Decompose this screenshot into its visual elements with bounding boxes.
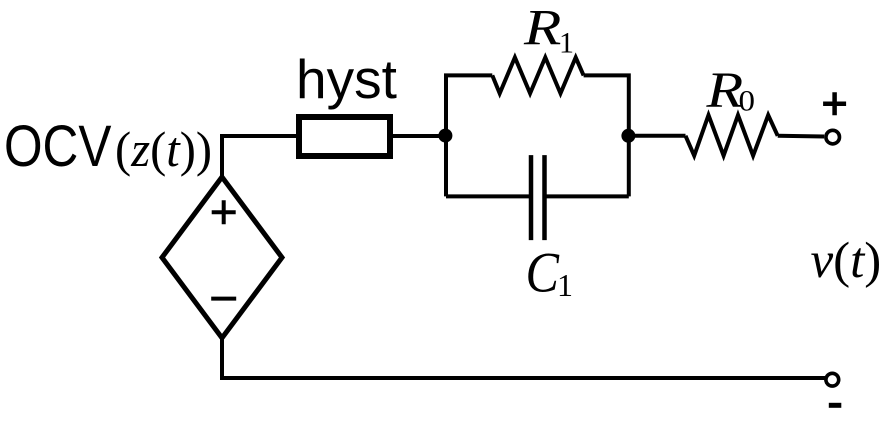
svg-text:1: 1 bbox=[559, 27, 574, 60]
minus sign inside source bbox=[211, 297, 236, 301]
svg-text:R: R bbox=[523, 0, 561, 56]
minus sign at terminal bbox=[829, 403, 842, 408]
resistor R1 bbox=[492, 57, 583, 93]
plus sign inside source bbox=[212, 200, 236, 224]
wire hyst to node A bbox=[393, 134, 446, 138]
svg-text:C: C bbox=[526, 241, 561, 305]
node A (left junction dot) bbox=[438, 129, 452, 143]
label OCV(z(t)) bbox=[4, 114, 212, 178]
svg-text:v(t): v(t) bbox=[811, 233, 882, 289]
capacitor C1 bbox=[531, 155, 545, 240]
negative terminal (open circle) bbox=[826, 373, 839, 386]
svg-text:OCV: OCV bbox=[4, 114, 111, 178]
svg-text:(z(t)): (z(t)) bbox=[115, 121, 212, 177]
wire node B to R0 bbox=[629, 134, 686, 138]
RC parallel frame wires bbox=[446, 75, 629, 196]
plus sign at terminal bbox=[823, 92, 846, 115]
wire R0 to terminal bbox=[778, 134, 824, 139]
svg-text:hyst: hyst bbox=[296, 48, 397, 110]
node B (right junction dot) bbox=[621, 129, 635, 143]
wire from source top corner to hyst bbox=[222, 136, 296, 177]
resistor R0 bbox=[686, 115, 778, 156]
wire from source bottom to ground rail bbox=[222, 338, 825, 378]
dependent source E1 (diamond) bbox=[162, 177, 282, 338]
svg-text:0: 0 bbox=[739, 84, 755, 117]
hyst block bbox=[299, 117, 390, 156]
svg-text:1: 1 bbox=[557, 267, 573, 303]
capacitor bottom wires bbox=[446, 194, 629, 198]
positive terminal (open circle) bbox=[826, 130, 840, 144]
